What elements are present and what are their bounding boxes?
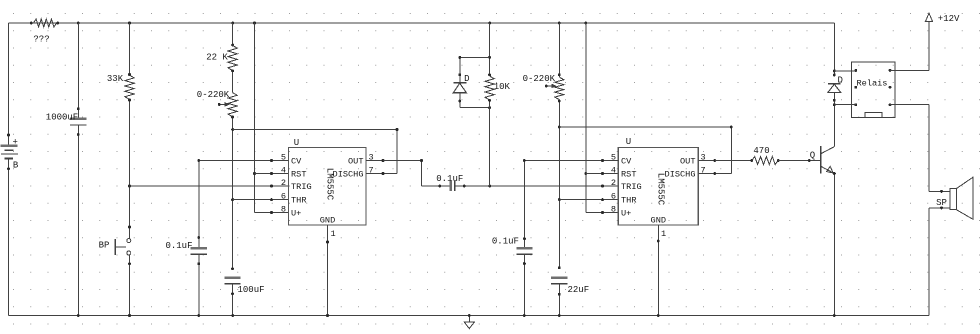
wire relay coil bottom xyxy=(834,104,856,106)
capacitor 0.1uF CV2 xyxy=(492,236,533,254)
svg-text:0-220K: 0-220K xyxy=(197,90,230,100)
capacitor 100uF xyxy=(225,278,265,295)
IC U2 LM555C box xyxy=(618,137,698,225)
wire pot2 to DISCHG2 xyxy=(559,126,732,174)
svg-text:+: + xyxy=(12,138,17,148)
svg-text:Relais: Relais xyxy=(857,79,888,89)
svg-text:OUT: OUT xyxy=(680,157,695,167)
node top rail U1 vcc xyxy=(253,22,256,25)
wire RST1 net xyxy=(255,173,289,175)
wire U2 vcc drop xyxy=(584,23,618,213)
svg-text:2: 2 xyxy=(281,178,286,188)
capacitor 0.1uF coupling xyxy=(436,174,463,191)
svg-text:???: ??? xyxy=(33,35,49,45)
diode D1 xyxy=(453,74,469,93)
pot2 wiper arrow xyxy=(545,84,556,89)
svg-text:DISCHG: DISCHG xyxy=(333,170,364,180)
U2 pin labels xyxy=(621,157,696,226)
wire CV2 net xyxy=(523,159,618,248)
wire RST2 net xyxy=(586,173,619,175)
wire diode1 top xyxy=(458,56,489,83)
wire 470 to base xyxy=(778,159,821,162)
U1 pin numbers xyxy=(281,153,374,240)
wire pot2 top xyxy=(558,23,561,77)
svg-text:U+: U+ xyxy=(621,209,631,219)
svg-text:8: 8 xyxy=(611,205,616,215)
wire 22K to pot xyxy=(231,69,234,92)
wire diode1 bottom xyxy=(458,93,491,109)
svg-text:BP: BP xyxy=(99,240,110,250)
wire TRIG1 net xyxy=(130,185,289,187)
wire 1000uF top xyxy=(77,23,80,119)
svg-text:2: 2 xyxy=(611,178,616,188)
wire CV1 cap bottom xyxy=(197,254,200,317)
wire collector xyxy=(833,105,835,147)
wire 10K bottom xyxy=(488,99,491,186)
wire 10K top xyxy=(488,23,491,76)
svg-text:GND: GND xyxy=(651,216,666,226)
svg-text:Q: Q xyxy=(810,151,815,161)
wire 100uF bottom xyxy=(231,284,234,317)
wire diode2 bottom xyxy=(833,92,836,106)
svg-text:10K: 10K xyxy=(494,82,511,92)
U1 pin stubs xyxy=(270,159,384,214)
wire pot1 to DISCHG1 xyxy=(233,128,399,173)
pushbutton BP xyxy=(99,239,131,256)
wire THR1 net xyxy=(233,199,289,201)
svg-text:U: U xyxy=(294,138,299,148)
svg-text:33K: 33K xyxy=(107,74,124,84)
svg-text:0.1uF: 0.1uF xyxy=(492,236,519,246)
svg-text:GND: GND xyxy=(320,216,335,226)
diode D2 flyback xyxy=(828,76,843,93)
resistor 22K xyxy=(206,45,237,70)
power +12V xyxy=(925,13,960,24)
wire relay to speaker xyxy=(890,105,929,192)
svg-text:CV: CV xyxy=(621,157,632,167)
wire U2 GND xyxy=(657,225,660,317)
svg-text:RST: RST xyxy=(621,170,636,180)
svg-text:0.1uF: 0.1uF xyxy=(165,241,192,251)
svg-text:RST: RST xyxy=(291,170,306,180)
wire 33K to BP xyxy=(128,99,131,239)
svg-text:TRIG: TRIG xyxy=(621,182,642,192)
node top rail 10K xyxy=(488,22,491,25)
U2 pin stubs xyxy=(601,159,716,214)
wire THR2 net xyxy=(559,199,618,201)
resistor 10K xyxy=(485,76,511,100)
svg-text:D: D xyxy=(464,74,469,84)
wire top supply rail xyxy=(9,22,835,24)
svg-text:OUT: OUT xyxy=(348,157,363,167)
wire pot2 bottom xyxy=(558,100,561,270)
wire BP bottom xyxy=(128,255,131,317)
svg-text:1: 1 xyxy=(661,229,666,239)
svg-text:SP: SP xyxy=(936,198,947,208)
wire cap to TRIG2 xyxy=(455,185,619,188)
pot wiper arrow left xyxy=(218,102,230,107)
wire pot1 bottom xyxy=(231,116,234,271)
svg-text:22 K: 22 K xyxy=(206,53,228,63)
capacitor 1000uF xyxy=(46,112,87,125)
wire OUT1 to cap xyxy=(422,185,450,188)
svg-text:4: 4 xyxy=(281,166,286,176)
IC U1 LM555C box xyxy=(289,138,367,225)
U2 pin numbers xyxy=(611,153,706,240)
wire emitter xyxy=(833,172,836,317)
node top rail 22K xyxy=(231,22,234,25)
wire battery bottom xyxy=(7,159,10,316)
svg-text:U: U xyxy=(626,137,631,147)
potentiometer 0-220K R_left xyxy=(197,90,237,117)
wire U1 GND xyxy=(326,225,329,317)
wire CV2 cap bottom xyxy=(523,254,526,317)
wire 22K top xyxy=(231,23,234,46)
resistor 470 xyxy=(752,146,780,165)
svg-text:100uF: 100uF xyxy=(238,285,265,295)
wire OUT2 to 470 xyxy=(715,159,753,162)
speaker SP xyxy=(929,177,973,219)
svg-text:470: 470 xyxy=(753,146,769,156)
wire U1 vcc drop xyxy=(253,23,288,213)
wire 22uF bottom xyxy=(558,284,561,317)
potentiometer 0-220K R_right xyxy=(523,74,564,100)
svg-text:CV: CV xyxy=(291,157,302,167)
wire speaker to ground rail xyxy=(928,208,930,316)
relay pins xyxy=(854,69,891,106)
wire CV1 net xyxy=(197,159,288,248)
svg-text:THR: THR xyxy=(291,196,306,206)
relay Relais box xyxy=(851,62,895,118)
node top rail pot2 xyxy=(558,22,561,25)
svg-text:6: 6 xyxy=(281,192,286,202)
wire bottom ground rail xyxy=(9,315,930,317)
capacitor 22uF xyxy=(551,278,589,295)
svg-text:U+: U+ xyxy=(291,209,301,219)
battery B xyxy=(1,138,19,171)
wire relay to +12V xyxy=(890,22,929,71)
resistor ??? xyxy=(30,19,59,45)
node battery top xyxy=(7,134,10,137)
node top rail 33K xyxy=(128,22,131,25)
svg-text:8: 8 xyxy=(281,205,286,215)
resistor 33K xyxy=(107,74,134,99)
svg-text:THR: THR xyxy=(621,196,636,206)
svg-text:6: 6 xyxy=(611,192,616,202)
svg-text:0-220K: 0-220K xyxy=(523,74,556,84)
wire top rail corner to relay xyxy=(833,23,836,76)
node top rail U2 vcc xyxy=(584,22,587,25)
svg-text:1: 1 xyxy=(331,229,336,239)
svg-text:1000uF: 1000uF xyxy=(46,112,78,122)
wire battery top xyxy=(8,23,10,145)
svg-text:+12V: +12V xyxy=(938,14,960,24)
svg-text:4: 4 xyxy=(611,166,616,176)
wire 33K top xyxy=(128,23,131,76)
wire relay coil top xyxy=(834,70,856,72)
node top rail 1000uF xyxy=(77,22,80,25)
svg-text:DISCHG: DISCHG xyxy=(665,170,696,180)
transistor Q xyxy=(810,146,835,173)
svg-text:D: D xyxy=(837,76,842,86)
svg-text:22uF: 22uF xyxy=(568,285,590,295)
wire 1000uF bottom xyxy=(77,125,80,317)
ground xyxy=(464,314,474,329)
svg-text:TRIG: TRIG xyxy=(291,182,312,192)
svg-text:0.1uF: 0.1uF xyxy=(436,174,463,184)
U1 pin labels xyxy=(291,157,364,226)
capacitor 0.1uF CV1 xyxy=(165,241,206,254)
svg-text:B: B xyxy=(13,161,19,171)
wire OUT1 jog xyxy=(383,159,423,186)
